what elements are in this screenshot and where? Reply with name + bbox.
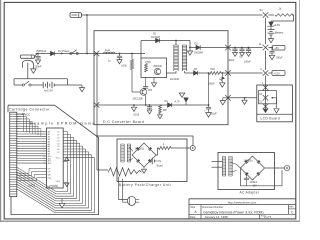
svg-text:1N5264: 1N5264 — [194, 52, 203, 55]
svg-text:13: 13 — [43, 163, 45, 165]
svg-text:S1: S1 — [260, 8, 264, 12]
svg-text:.0013: .0013 — [133, 113, 140, 116]
svg-text:D.C Converter Board: D.C Converter Board — [103, 120, 144, 124]
svg-text:2SC1308: 2SC1308 — [133, 97, 144, 100]
svg-text:REV: REV — [289, 207, 294, 209]
svg-text:.001: .001 — [148, 89, 153, 92]
svg-text:January 12, 1998: January 12, 1998 — [205, 215, 229, 219]
svg-text:AC Adapter: AC Adapter — [240, 190, 260, 194]
svg-text:1000uF: 1000uF — [250, 182, 258, 184]
svg-text:Date:: Date: — [190, 216, 196, 219]
svg-text:6V: 6V — [158, 160, 161, 163]
svg-text:GameBoy Internals (Power & Ex.: GameBoy Internals (Power & Ex. ROM) — [203, 210, 264, 214]
svg-text:100uF: 100uF — [208, 82, 215, 85]
svg-text:Cartridge Connector: Cartridge Connector — [9, 108, 50, 112]
svg-text:Example EPROM Game: Example EPROM Game — [30, 122, 96, 126]
svg-text:1uH: 1uH — [105, 48, 110, 52]
svg-text:+5V: +5V — [274, 46, 279, 50]
svg-text:1N4001s: 1N4001s — [244, 160, 254, 162]
svg-text:10uF: 10uF — [211, 113, 217, 116]
svg-text:Size: Size — [190, 206, 195, 209]
svg-text:4xC 6V: 4xC 6V — [44, 89, 53, 93]
svg-text:1/2 Power: 1/2 Power — [58, 49, 70, 53]
svg-text:+13V: +13V — [274, 72, 280, 76]
svg-text:VCC: VCC — [25, 112, 31, 116]
svg-text:27C256: 27C256 — [49, 184, 59, 188]
svg-text:VSS: VSS — [56, 181, 61, 183]
svg-text:2 of 5: 2 of 5 — [264, 215, 272, 219]
svg-text:VCC: VCC — [56, 157, 61, 159]
svg-text:http://www.devrs.com: http://www.devrs.com — [228, 200, 257, 204]
svg-text:3.6V: 3.6V — [275, 23, 281, 27]
svg-text:2SD148: 2SD148 — [153, 65, 162, 68]
svg-text:100uF: 100uF — [276, 56, 283, 59]
svg-text:100nF: 100nF — [244, 61, 251, 64]
svg-text:4.7V: 4.7V — [175, 101, 180, 104]
svg-text:100k: 100k — [121, 65, 127, 68]
svg-text:Document Number: Document Number — [202, 206, 223, 209]
svg-text:100: 100 — [163, 109, 168, 112]
svg-text:25/60mA: 25/60mA — [36, 49, 46, 53]
svg-text:16V: 16V — [253, 186, 258, 188]
svg-text:.1u: .1u — [107, 60, 111, 63]
svg-text:100uF: 100uF — [228, 59, 235, 62]
svg-text:6L8: 6L8 — [211, 68, 216, 71]
svg-text:Battery: Battery — [275, 31, 284, 35]
svg-text:1N4001s: 1N4001s — [135, 148, 145, 150]
svg-text:Nicad: Nicad — [157, 165, 164, 168]
svg-text:2G3146: 2G3146 — [170, 78, 180, 81]
svg-text:LCD Board: LCD Board — [261, 116, 280, 120]
svg-text:100nF: 100nF — [35, 65, 43, 68]
svg-text:Battery Pack/Charger Unit: Battery Pack/Charger Unit — [119, 183, 171, 187]
